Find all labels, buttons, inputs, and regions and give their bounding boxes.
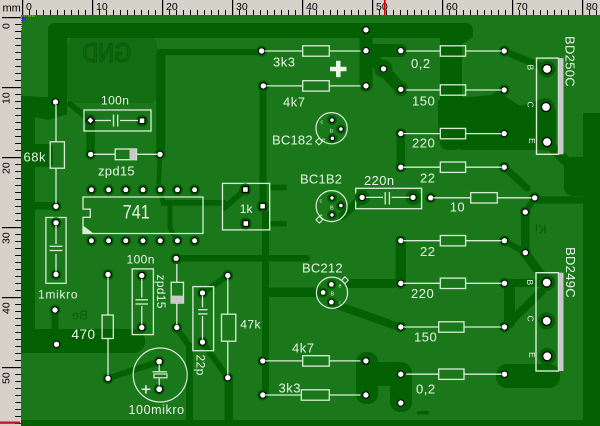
svg-text:100mikro: 100mikro (129, 403, 185, 417)
horizontal trace from pour to pad cluster (158, 49, 265, 55)
resistor 150 (top) (395, 85, 509, 109)
trace 150 pad into blob (482, 90, 504, 106)
trace island to 100n pad (70, 104, 90, 120)
svg-text:B: B (526, 65, 536, 71)
svg-text:1mikro: 1mikro (38, 288, 78, 302)
svg-text:150: 150 (414, 330, 437, 345)
resistor 3k3 (top) (256, 46, 371, 70)
trace zpd15 pad to IC pin (159, 154, 161, 190)
resistor 0,2 (top) (395, 46, 509, 72)
resistor 3k3 (bottom) (257, 380, 371, 400)
svg-text:BC212: BC212 (302, 261, 343, 276)
svg-text:10: 10 (1, 92, 13, 104)
mirrored GND copper text (83, 38, 132, 68)
svg-text:BD249C: BD249C (563, 247, 578, 298)
long vertical trace (4k7 to 1k to BC212) (260, 86, 325, 398)
trace 0,2 pad to B pad (504, 51, 547, 69)
vertical trace down to zpd15 pad (156, 49, 165, 154)
svg-text:0: 0 (1, 23, 13, 29)
capacitor 100n (horizontal) (84, 94, 151, 132)
resistor 22 (top) (395, 162, 509, 186)
capacitor 100mikro (electrolytic) (129, 348, 188, 417)
svg-text:30: 30 (1, 232, 13, 244)
svg-text:220: 220 (412, 136, 435, 151)
trace 47k to 22p (top) (203, 275, 229, 293)
svg-text:c: c (320, 199, 323, 205)
capacitor 220n (355, 173, 422, 209)
pad (left, lower) (51, 339, 62, 350)
capacitor 100n (vertical) (127, 253, 155, 335)
pad cluster bottom (360, 355, 406, 408)
trace between left pads (52, 310, 59, 346)
left edge copper strip (21, 100, 35, 353)
ruler cursor mark (red, left) (0, 422, 20, 424)
pad (left, upper) (50, 305, 61, 316)
polarity + mark (330, 61, 347, 77)
trace 10 pad to right strip (536, 196, 600, 203)
svg-text:22: 22 (420, 244, 435, 259)
thick trace to 68k (21, 144, 53, 167)
vertical trace 22/220 pads (397, 132, 406, 168)
vertical trace below 47k (225, 376, 234, 422)
capacitor 22p (193, 287, 214, 376)
capacitor 1mikro (38, 217, 78, 301)
wide vertical trace (top right) (440, 28, 462, 150)
power transistor BD249C (525, 247, 578, 371)
copper bulge at right strip (E of BD250C) (547, 142, 600, 196)
svg-text:20: 20 (1, 162, 13, 174)
svg-text:C: C (526, 102, 536, 108)
trace 22p to 47k (bottom) (203, 342, 228, 378)
svg-text:40: 40 (1, 302, 13, 314)
svg-text:50: 50 (1, 372, 13, 384)
resistor 220 (top) (395, 128, 509, 151)
mirrored copper text Be (72, 308, 88, 323)
svg-text:mm: mm (3, 3, 21, 15)
trimmer 1k (223, 183, 270, 230)
svg-text:e: e (322, 138, 325, 144)
svg-text:22p: 22p (193, 355, 207, 376)
trace stubs right of 1k (270, 185, 287, 227)
svg-text:1k: 1k (240, 202, 254, 216)
svg-text:B: B (330, 206, 334, 212)
svg-text:150: 150 (412, 94, 435, 109)
transistor BC212 (302, 261, 348, 309)
transistor BC182 (upper) (272, 113, 347, 148)
board origin marker (21, 16, 35, 31)
diode zpd15 (vertical) (154, 253, 183, 333)
resistor 4k7 (bottom) (257, 340, 371, 366)
resistor 22 (bottom) (395, 235, 510, 259)
resistor 220 (bottom) (395, 278, 510, 301)
svg-text:220: 220 (411, 286, 434, 301)
bottom wide copper band (21, 329, 145, 353)
ruler cursor mark (red, top) (384, 0, 386, 15)
svg-text:47k: 47k (240, 318, 261, 332)
copper blob around BD250C C/E pads (438, 94, 556, 150)
svg-text:Ki: Ki (535, 222, 547, 237)
trace 220b to B pad of BD249C (504, 283, 547, 329)
svg-text:E: E (527, 138, 537, 144)
trace left strip to 68k pad (35, 202, 54, 210)
trace 741 pin to pad below (160, 190, 176, 239)
svg-text:100n: 100n (127, 253, 155, 267)
resistor 470 (72, 269, 114, 384)
resistor 150 (bottom) (395, 322, 510, 345)
horizontal trace from IC pin 2 area (174, 255, 310, 262)
trace inside 1k trimmer (161, 190, 245, 209)
pad below 741 (171, 253, 182, 264)
GND pour left band (48, 23, 67, 112)
svg-text:0,2: 0,2 (411, 56, 431, 71)
svg-text:BC182: BC182 (272, 133, 313, 148)
transistor BC182 (middle) (300, 172, 347, 224)
trace 100n to bottom band (133, 328, 142, 339)
svg-text:3k3: 3k3 (273, 55, 295, 70)
svg-text:100n: 100n (101, 94, 129, 108)
svg-text:220n: 220n (364, 173, 395, 188)
svg-text:B: B (331, 292, 335, 298)
svg-text:4k7: 4k7 (292, 340, 314, 355)
trace 100n pad to zpd15 pad (86, 120, 95, 155)
power transistor BD250C (526, 36, 578, 154)
svg-text:0,2: 0,2 (416, 382, 436, 397)
resistor 47k (222, 270, 262, 383)
diode zpd15 (horizontal) (85, 149, 165, 179)
svg-text:B: B (525, 280, 535, 286)
right edge copper strip (583, 113, 600, 426)
svg-text:3k3: 3k3 (279, 380, 301, 395)
pad cluster top (361, 24, 407, 94)
small dash trace bottom right (417, 411, 429, 415)
svg-text:10: 10 (450, 200, 465, 215)
bottom edge copper strip (21, 420, 600, 426)
vertical trace 22b/220b pads (396, 240, 407, 284)
svg-text:c: c (321, 120, 324, 126)
trace 220n pad to BC182 (342, 199, 361, 216)
GND island (pour clearance) (67, 38, 157, 103)
trace 220 pad to C pad (504, 107, 545, 134)
resistor 0,2 (bottom) (395, 369, 510, 397)
copper blob around bottom pad cluster (356, 352, 412, 412)
svg-text:4k7: 4k7 (283, 95, 305, 110)
copper blob around centre pad cluster (360, 24, 408, 96)
svg-text:BC1B2: BC1B2 (300, 172, 342, 187)
svg-text:741: 741 (123, 203, 150, 224)
svg-text:zpd15: zpd15 (98, 164, 135, 179)
svg-text:E: E (527, 352, 537, 358)
GND pour top band (48, 23, 473, 44)
resistor 68k (24, 97, 65, 212)
svg-text:Be: Be (72, 308, 88, 323)
trace BC212 collector diagonal (334, 304, 401, 327)
trace 10 pad down (505, 198, 535, 253)
GND pour merge to left strip (21, 96, 67, 120)
trace 22 pad diagonal (504, 167, 527, 188)
svg-text:BD250C: BD250C (563, 36, 578, 87)
trace zpd15 to vertical (177, 328, 189, 345)
svg-text:470: 470 (72, 327, 96, 342)
svg-text:GND: GND (83, 38, 132, 68)
svg-text:C: C (526, 316, 536, 322)
resistor 4k7 (top) (258, 80, 372, 109)
svg-text:zpd15: zpd15 (154, 275, 168, 309)
trace via to B pad BD249C (525, 254, 546, 282)
copper band from E pad of BD249C (496, 356, 560, 388)
resistor 10 (425, 192, 540, 214)
op-amp 741 (DIP) (83, 184, 203, 246)
trace BC212 to 22 pads (345, 279, 399, 288)
pad below 10 resistor (520, 207, 531, 259)
svg-text:c: c (339, 301, 342, 307)
svg-text:e: e (339, 284, 342, 290)
vertical trace near 22p (186, 343, 193, 422)
svg-text:68k: 68k (24, 150, 46, 165)
svg-text:b: b (330, 129, 333, 135)
mirrored copper text Ki (535, 222, 547, 237)
trace 470 pad to 100mikro (108, 362, 159, 379)
svg-text:22: 22 (420, 170, 435, 185)
